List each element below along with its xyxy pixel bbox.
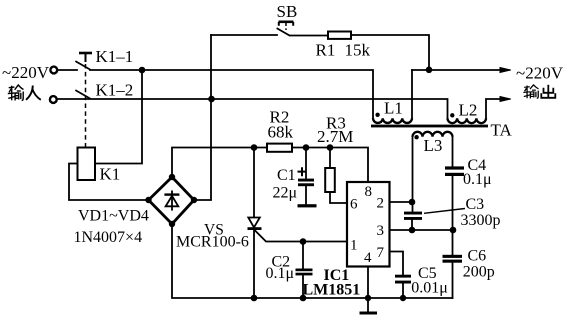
svg-text:4: 4 <box>364 250 372 266</box>
svg-text:L3: L3 <box>424 136 443 155</box>
svg-text:L1: L1 <box>384 99 403 118</box>
svg-text:2: 2 <box>377 196 385 212</box>
svg-text:K1–1: K1–1 <box>96 47 134 66</box>
svg-text:2.7M: 2.7M <box>317 127 353 146</box>
svg-text:MCR100-6: MCR100-6 <box>176 233 249 250</box>
svg-text:~220V: ~220V <box>2 63 50 82</box>
svg-text:0.01μ: 0.01μ <box>411 280 448 297</box>
svg-text:8: 8 <box>365 184 373 200</box>
svg-text:200p: 200p <box>463 263 495 280</box>
svg-text:C1: C1 <box>277 167 296 184</box>
svg-text:C3: C3 <box>466 196 485 213</box>
svg-text:3300p: 3300p <box>461 212 501 229</box>
svg-text:0.1μ: 0.1μ <box>463 171 492 188</box>
svg-text:SB: SB <box>277 2 298 21</box>
svg-text:R1: R1 <box>316 41 336 60</box>
svg-text:7: 7 <box>377 245 385 261</box>
svg-text:~220V: ~220V <box>516 64 564 83</box>
svg-text:1N4007×4: 1N4007×4 <box>74 229 143 246</box>
svg-text:VD1~VD4: VD1~VD4 <box>78 208 149 225</box>
svg-text:K1: K1 <box>100 165 121 184</box>
svg-text:68k: 68k <box>268 123 294 142</box>
svg-text:1: 1 <box>350 238 358 254</box>
svg-text:3: 3 <box>377 223 385 239</box>
svg-text:L2: L2 <box>459 101 478 120</box>
svg-text:6: 6 <box>350 197 358 213</box>
svg-text:LM1851: LM1851 <box>303 282 361 299</box>
svg-text:15k: 15k <box>345 41 371 60</box>
svg-text:TA: TA <box>491 121 513 140</box>
svg-text:K1–2: K1–2 <box>96 81 134 100</box>
svg-text:0.1μ: 0.1μ <box>266 265 295 282</box>
svg-text:22μ: 22μ <box>273 185 298 202</box>
svg-text:C6: C6 <box>468 247 487 264</box>
